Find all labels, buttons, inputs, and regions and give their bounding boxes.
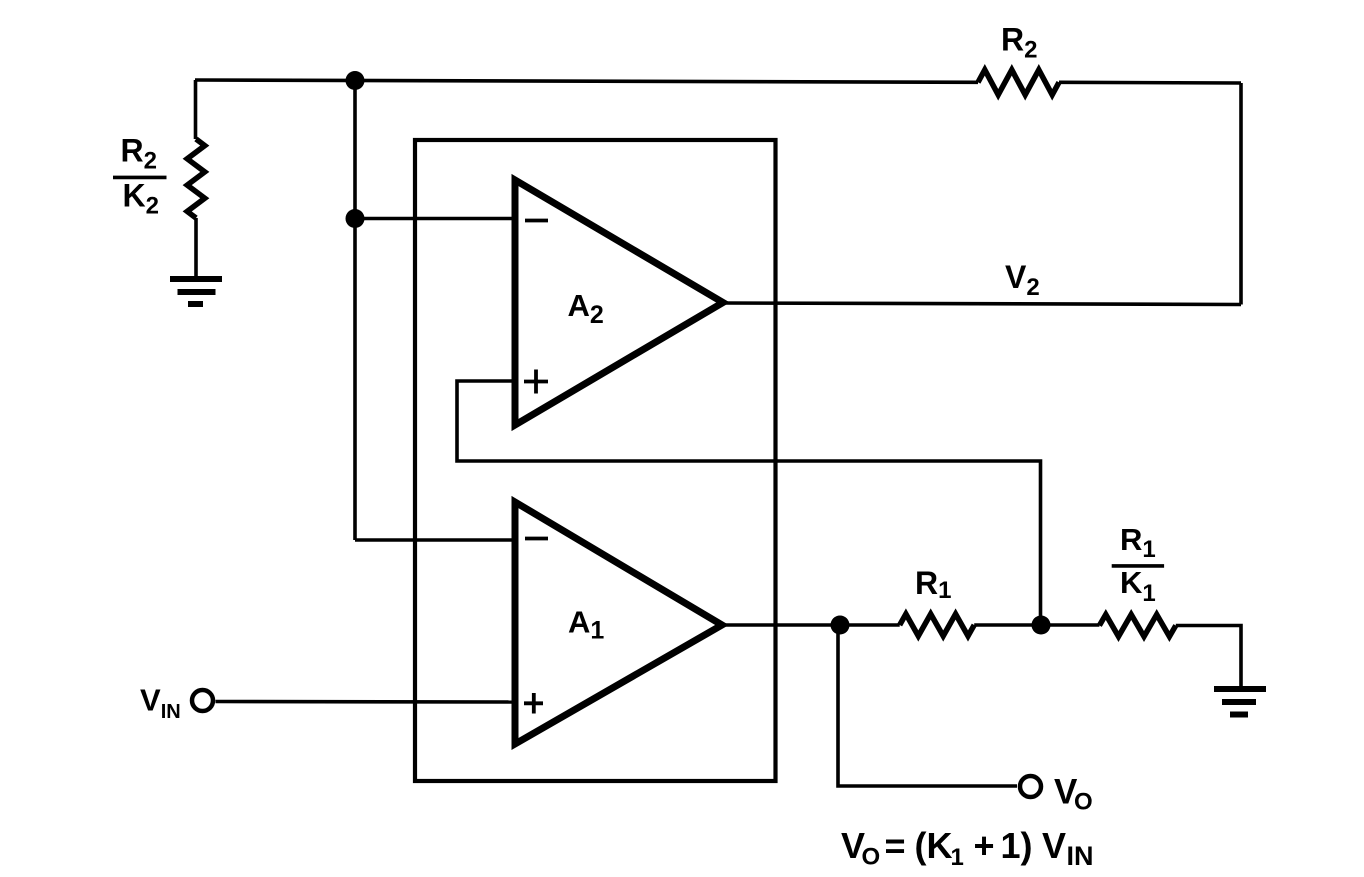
wire R1/K1 to ground corner [1176,626,1241,689]
wire V2 net [723,303,1241,305]
node junction A1 output [831,616,850,635]
wire top feedback rail [195,80,978,82]
A2 minus pin label [525,219,548,223]
wire A2 inverting input [355,217,515,221]
wire A1 inverting input [355,538,515,542]
svg-text:O: O [862,844,881,871]
A2 plus pin label [524,380,548,384]
wire left vertical from top node [353,81,357,541]
ground for R2/K2 [170,279,222,304]
wire R2/K2 bottom lead [194,218,198,278]
node junction R1-R1/K1 [1032,616,1051,635]
wire A1 output [722,623,900,627]
node junction A2 inverting [346,209,365,228]
A1 plus pin label [524,701,543,705]
svg-text:V: V [1042,825,1066,866]
terminal VIN [192,690,213,711]
resistor R1 [900,614,975,636]
resistor R2 [978,70,1059,95]
svg-text:1): 1) [1001,825,1033,866]
wire VIN to A1 noninverting input [216,700,516,704]
op-amp A2 [515,180,723,425]
svg-text:O: O [1074,788,1093,815]
wire A2 noninverting feedback loop [457,381,1041,625]
box enclosure around A1 and A2 [415,140,776,781]
svg-text:=: = [885,825,906,866]
wire R2/K2 top lead [194,80,198,139]
wire between R1 and R1/K1 [974,623,1099,627]
svg-text:+: + [974,825,995,866]
svg-text:1: 1 [951,844,964,871]
svg-text:IN: IN [1067,841,1094,871]
node junction top rail [346,71,365,90]
op-amp A1 [515,502,722,744]
terminal VO [1020,776,1041,797]
wire VO branch [838,625,1017,786]
wire R2 right lead to right rail [1059,81,1241,85]
wire right vertical rail [1239,83,1243,305]
resistor R1/K1 [1099,615,1175,637]
A1 minus pin label [525,537,548,541]
ground for R1/K1 [1214,689,1266,715]
resistor R2/K2 [187,139,205,218]
svg-text:(K: (K [915,825,953,866]
